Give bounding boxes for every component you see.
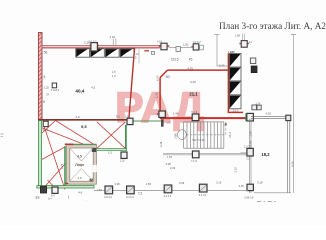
window row w4 xyxy=(120,49,134,58)
colonnade line y=190.6 xyxy=(94,190,248,192)
column at top of window strip x=244 xyxy=(235,34,252,48)
red room 21,1 outline xyxy=(160,70,228,113)
corner column 19,2 xyxy=(286,115,291,120)
column on top wall at x=94 xyxy=(89,40,99,51)
svg-text:1,6: 1,6 xyxy=(166,121,170,125)
bottom-left corner column xyxy=(36,186,47,199)
svg-text:1,56: 1,56 xyxy=(146,182,152,186)
svg-text:7,1,9: 7,1,9 xyxy=(191,159,197,163)
svg-text:4,6: 4,6 xyxy=(78,190,82,194)
middle column on stairwell right wall xyxy=(240,146,253,161)
small vent square on line xyxy=(176,47,180,52)
room 19,2 top wall xyxy=(251,116,291,118)
svg-text:4,10: 4,10 xyxy=(157,40,163,44)
red bit bottom-left xyxy=(65,183,68,185)
svg-text:2,98: 2,98 xyxy=(174,133,178,139)
svg-text:21,1: 21,1 xyxy=(189,91,198,96)
svg-text:0,4 0,4: 0,4 0,4 xyxy=(126,196,134,199)
elevator shaft xyxy=(65,144,97,184)
red tick at 144-149 xyxy=(144,50,149,52)
left wall lower (green) xyxy=(38,121,41,187)
stair treads xyxy=(184,122,224,148)
svg-text:1,5: 1,5 xyxy=(112,70,116,74)
svg-text:0,4 0,4: 0,4 0,4 xyxy=(199,194,207,197)
svg-text:2,0: 2,0 xyxy=(246,157,250,160)
construction line x=217 xyxy=(215,34,220,66)
svg-text:0,2 0,2: 0,2 0,2 xyxy=(193,41,201,44)
svg-text:4,08: 4,08 xyxy=(166,162,172,166)
column on stairs wall x=195 xyxy=(191,110,198,120)
slanted wall from (134.6,47.5) to (128.7,121) xyxy=(129,48,135,121)
small squares pair right of strip xyxy=(252,105,257,110)
tiny symbol xyxy=(152,51,155,54)
vent squares right xyxy=(250,58,255,64)
green vertical x=126 xyxy=(125,125,127,149)
svg-text:1,35: 1,35 xyxy=(155,92,159,98)
svg-text:1,5: 1,5 xyxy=(112,74,116,78)
demolition red diagonals big area xyxy=(41,121,97,191)
svg-text:План 3-го этажа Лит. А, А2: План 3-го этажа Лит. А, А2 xyxy=(219,21,326,31)
red cap top-left of shaft xyxy=(65,143,74,145)
svg-text:1,5: 1,5 xyxy=(78,176,83,180)
svg-text:1,26: 1,26 xyxy=(255,103,260,106)
column cluster at x=196 top xyxy=(191,41,203,50)
svg-text:56: 56 xyxy=(44,50,48,54)
svg-text:45: 45 xyxy=(189,57,193,61)
left exterior wall (red hatched) xyxy=(38,33,42,121)
svg-text:4,5: 4,5 xyxy=(77,155,82,159)
svg-text:2,10: 2,10 xyxy=(233,167,237,173)
column C b x=130 xyxy=(126,186,134,199)
svg-text:0,96 0,5: 0,96 0,5 xyxy=(244,197,254,200)
svg-text:0,9 4,6: 0,9 4,6 xyxy=(104,196,112,199)
dash-dot bottom right xyxy=(257,201,276,203)
svg-text:3,38: 3,38 xyxy=(114,182,120,186)
dim lines above wall x=113-116 xyxy=(113,39,116,46)
column C c x=168 xyxy=(164,185,172,198)
svg-text:19,2: 19,2 xyxy=(261,152,270,157)
window row w1 xyxy=(76,49,90,58)
svg-text:5: 5 xyxy=(44,75,46,79)
svg-text:123,5: 123,5 xyxy=(171,58,179,62)
column x=55 on green wall xyxy=(51,187,58,198)
svg-text:2,20: 2,20 xyxy=(84,41,90,45)
svg-text:1,5: 1,5 xyxy=(108,150,112,154)
svg-text:4,39: 4,39 xyxy=(187,66,193,70)
svg-text:. .: . . xyxy=(85,198,87,201)
green vertical left of elevator xyxy=(64,146,66,186)
svg-text:Лифт: Лифт xyxy=(75,163,84,167)
svg-text:1,89: 1,89 xyxy=(248,140,252,146)
column at right end of top wall x=163 xyxy=(157,40,169,50)
dark corner top-right xyxy=(92,148,96,152)
svg-text:С1: С1 xyxy=(138,191,142,195)
room 19,2 right wall xyxy=(288,116,290,193)
top exterior wall (pink band) xyxy=(42,45,160,48)
svg-text:1,53: 1,53 xyxy=(167,155,173,159)
strip bottom red xyxy=(228,111,243,113)
window strip right: left red edge xyxy=(227,53,229,113)
svg-text:5,0: 5,0 xyxy=(116,115,120,119)
small square symbol in room 40.4 xyxy=(44,83,60,96)
svg-text:3,19: 3,19 xyxy=(257,181,263,185)
svg-text:3,40: 3,40 xyxy=(190,80,196,84)
stairwell bottom wall xyxy=(163,154,248,155)
column right end stairs wall xyxy=(246,113,253,121)
cab X xyxy=(70,148,93,181)
lower-left horizontal wall dark red y=119.8 xyxy=(38,119,128,121)
svg-text:2,06: 2,06 xyxy=(170,166,176,170)
svg-text:1,25: 1,25 xyxy=(44,86,50,90)
svg-text:5,1,9: 5,1,9 xyxy=(191,110,197,114)
stair ellipse xyxy=(178,130,187,140)
faint left-edge mark xyxy=(1,134,4,137)
svg-text:1,98: 1,98 xyxy=(235,34,240,37)
green continuation to stairs xyxy=(128,120,163,122)
svg-text:4,9: 4,9 xyxy=(76,115,80,119)
svg-text:5,49: 5,49 xyxy=(219,63,225,67)
window strip cells xyxy=(229,54,241,68)
svg-text:3,56: 3,56 xyxy=(179,181,185,185)
svg-text:9,5: 9,5 xyxy=(81,124,87,129)
green bottom wall xyxy=(37,186,94,188)
column bottom 19,2 xyxy=(239,184,254,199)
svg-text:40,4: 40,4 xyxy=(75,89,84,94)
faint marks bottom left xyxy=(36,196,69,200)
second vent square xyxy=(257,105,261,110)
svg-text:6,03: 6,03 xyxy=(156,75,160,81)
svg-text:0,4х0,4: 0,4х0,4 xyxy=(51,88,60,92)
stairs top red wall xyxy=(160,117,250,119)
thin vertical x=139 xyxy=(138,48,140,64)
svg-text:3,19: 3,19 xyxy=(216,180,222,184)
svg-text:4,3: 4,3 xyxy=(91,86,95,90)
svg-text:0,4: 0,4 xyxy=(51,195,55,198)
svg-text:1,92: 1,92 xyxy=(183,42,189,46)
column at x=130 junction xyxy=(125,115,133,124)
svg-text:0,30: 0,30 xyxy=(239,185,244,188)
svg-text:8: 8 xyxy=(43,100,45,104)
column on stairwell bottom x=196 xyxy=(191,151,199,163)
svg-text:4 16: 4 16 xyxy=(110,35,116,39)
svg-text:21,2: 21,2 xyxy=(228,132,232,138)
svg-text:1,88: 1,88 xyxy=(230,50,236,54)
demolition X in small room xyxy=(97,122,126,149)
thin line between top columns xyxy=(169,46,193,48)
window row w3 xyxy=(105,49,119,58)
svg-text:4,02: 4,02 xyxy=(265,112,271,116)
stairwell right wall x=247.5 xyxy=(250,119,251,193)
svg-text:1,44: 1,44 xyxy=(173,112,179,116)
window row w2 xyxy=(91,49,105,58)
column C a x=109 xyxy=(104,186,112,199)
room 19,2 bottom line xyxy=(254,192,291,194)
svg-text:1,75: 1,75 xyxy=(60,163,64,169)
svg-text:2,0: 2,0 xyxy=(125,115,129,118)
svg-text:5х17=3,06: 5х17=3,06 xyxy=(192,138,205,142)
column bottom-left of red room xyxy=(157,111,165,117)
corner column cluster bottom-left xyxy=(39,121,49,132)
stair arrow dashed xyxy=(186,124,226,135)
construction line x=293.5 xyxy=(291,34,296,193)
green horizontal y=149.5 xyxy=(96,149,126,151)
svg-text:2,0 1: 2,0 1 xyxy=(233,109,239,113)
svg-text:2,20: 2,20 xyxy=(120,159,125,162)
svg-text:4,36: 4,36 xyxy=(290,161,294,167)
door gap right xyxy=(93,165,97,172)
svg-text:0,4: 0,4 xyxy=(48,198,52,201)
svg-text:50: 50 xyxy=(166,75,170,79)
column below green xyxy=(120,152,127,162)
svg-text:0,4 0,4: 0,4 0,4 xyxy=(164,195,172,198)
dark bit bottom-right xyxy=(90,179,93,182)
stairs left stub xyxy=(161,119,164,126)
short line y=66 xyxy=(217,65,228,67)
green cap top-right xyxy=(74,143,97,145)
svg-text:2,38: 2,38 xyxy=(159,141,163,147)
column C d x=203 xyxy=(199,184,207,197)
svg-text:1,58: 1,58 xyxy=(248,131,252,137)
svg-text:1,66: 1,66 xyxy=(97,188,103,192)
